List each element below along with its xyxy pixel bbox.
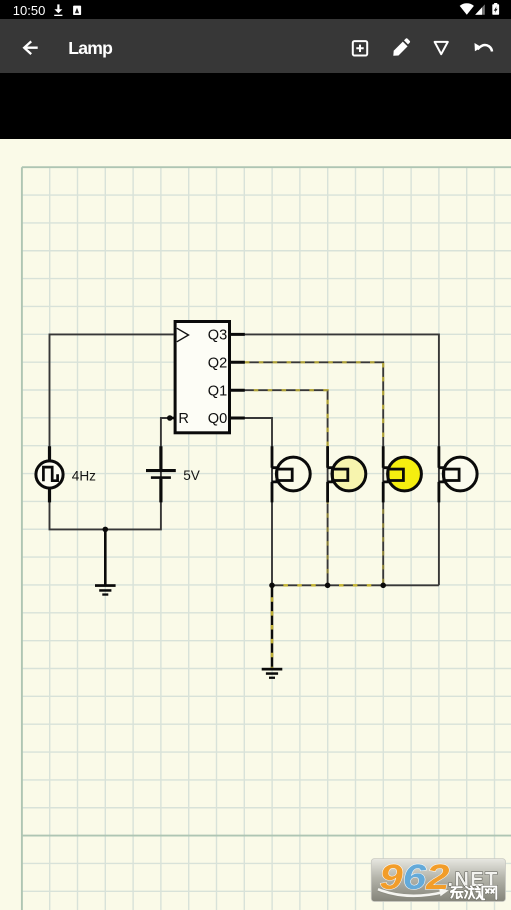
battery status icon [494,3,497,5]
wire: battery top to chip R input [161,418,174,474]
back arrow [24,41,38,54]
svg-text:Q1: Q1 [208,383,227,399]
ground G1 bars [95,584,116,587]
ground G1 stem [104,529,107,584]
wire: lamp L4 bottom lead down to bus [438,474,440,585]
junction dot source/battery/ground [103,527,109,533]
wire: Q3 to lamp L4 [231,334,439,474]
wire: Q1 to lamp L2 [231,390,328,474]
lamp L1 filament square [277,469,292,480]
current dashes on Q2 net [231,362,383,446]
swoosh arrow [378,890,444,897]
chip U1 R input stub [170,417,176,420]
battery B1 leads [159,446,162,502]
lamp L2 filament square [333,469,348,480]
lamp L3 leads and stubs [383,446,389,502]
svg-text:R: R [178,411,189,427]
bus junction dots [269,583,275,589]
undo icon [478,45,492,52]
wire: clock net from square-wave source to chip CLK [50,334,174,474]
add-component icon (boxed plus) [353,41,367,55]
screenshot app icon [73,6,81,15]
grid major border lines [22,167,511,910]
current dashes on Q1 net [231,390,328,446]
svg-text:Q0: Q0 [208,411,227,427]
lamp L1 bulb [276,457,310,491]
download icon [57,4,59,9]
svg-text:Q3: Q3 [208,328,227,344]
svg-text:Q2: Q2 [208,355,227,371]
grid minor lines [22,167,511,910]
battery B1 short plate [151,476,171,479]
wire: lamp L1 bottom lead down to bus [271,474,273,585]
svg-text:10:50: 10:50 [13,3,46,18]
lamp L3 filament square [388,469,403,480]
voltage source V1 body (4Hz square wave) [36,461,63,488]
wifi icon [460,3,474,14]
wire: Q2 to lamp L3 [231,362,383,474]
svg-text:962: 962 [380,858,450,897]
svg-text:Lamp: Lamp [68,38,113,58]
cell signal icon [475,4,485,14]
lamp L1 leads and stubs [272,446,278,502]
voltage source V1 leads [48,446,51,502]
wire: lamp L2 bottom lead down to bus [327,474,329,585]
lamp L4 filament square [444,469,459,480]
svg-text:5V: 5V [183,468,200,483]
simulate (nabla) icon [435,42,448,54]
status bar background [0,0,511,19]
current dashes on bus and ground stem [272,585,383,668]
ground G2 stem [271,585,274,668]
lamp L2 leads and stubs [328,446,334,502]
lamp L4 leads and stubs [439,446,445,502]
edit (pencil) icon [393,42,407,56]
chip U1 body [175,322,229,433]
wire: Q0 to lamp L1 [231,418,272,474]
wire: lamp L3 bottom lead down to bus [382,474,384,585]
square wave glyph [43,467,57,481]
Chinese characters le-you-wang (drawn) [451,886,497,899]
chip U1 output pin stubs Q3..Q0 [230,334,245,418]
battery B1 long plate [146,469,176,472]
black strip below app bar [0,73,511,139]
wire: bottom bus connecting lamp returns [272,584,439,586]
faint current dashes below lamps L2 L3 [326,502,328,585]
svg-text:4Hz: 4Hz [72,468,96,483]
junction dot at R input [167,415,173,421]
wire: source bottom to ground junction to battery bottom [50,474,161,529]
962.NET watermark box [371,859,505,902]
lamp L3 bulb [388,457,422,491]
lamp L2 bulb [332,457,366,491]
chip clock triangle [177,328,189,342]
app bar background [0,19,511,73]
lamp L4 bulb [443,457,477,491]
ground G2 bars [262,668,283,671]
